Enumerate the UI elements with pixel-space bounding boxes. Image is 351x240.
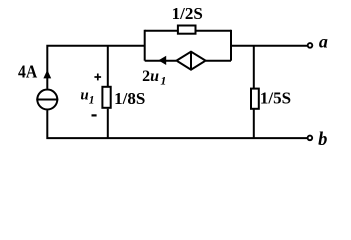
- svg-text:4A: 4A: [18, 62, 37, 82]
- current source I1 4A: circle: [37, 90, 57, 110]
- wire: right node vertical: [230, 30, 232, 61]
- dependent current source 2u1: vertical bar: [190, 52, 192, 70]
- wire: 1/2S bump left segment: [145, 30, 178, 32]
- resistor G1 1/8S: box: [102, 87, 110, 108]
- wire: 1/2S bump right segment: [196, 30, 231, 32]
- resistor G3 1/5S: box: [251, 89, 259, 109]
- wire: left vertical below current source, bottom rail to terminal b: [47, 110, 307, 138]
- wire: right rail to terminal a: [231, 45, 307, 47]
- wire: 2u1 branch right segment: [206, 60, 231, 62]
- current source 4A direction arrow (up): [43, 70, 51, 79]
- wire: 1/5S branch lower segment: [253, 110, 255, 138]
- wire: 1/8S branch lower segment: [107, 109, 109, 138]
- svg-text:u1: u1: [80, 88, 94, 107]
- svg-text:1/5S: 1/5S: [260, 89, 291, 108]
- terminal b: open circle: [308, 136, 313, 141]
- wire: 1/8S branch upper segment: [107, 46, 109, 86]
- svg-text:1/8S: 1/8S: [114, 89, 145, 108]
- svg-text:a: a: [319, 32, 328, 52]
- terminal a: open circle: [308, 43, 313, 48]
- resistor G2 1/2S: box: [178, 26, 196, 34]
- svg-text:2u1: 2u1: [142, 68, 166, 88]
- label: minus sign of u1 polarity: [92, 114, 97, 116]
- current source I1 4A: horizontal bar: [36, 99, 58, 101]
- dependent current source 2u1: diamond: [177, 52, 206, 70]
- dependent source 2u1 direction arrow (left): [158, 56, 166, 65]
- wire: top-left rail and left vertical down to current source: [47, 46, 144, 89]
- svg-text:b: b: [318, 130, 327, 150]
- wire: 2u1 branch left segment: [145, 60, 176, 62]
- svg-text:1/2S: 1/2S: [172, 4, 203, 23]
- label: plus sign of u1 polarity: [94, 74, 101, 81]
- wire: 1/5S branch upper segment: [253, 46, 255, 88]
- wire: left node vertical (node joining 1/2S bump, rail, 2u1 branch): [144, 30, 146, 61]
